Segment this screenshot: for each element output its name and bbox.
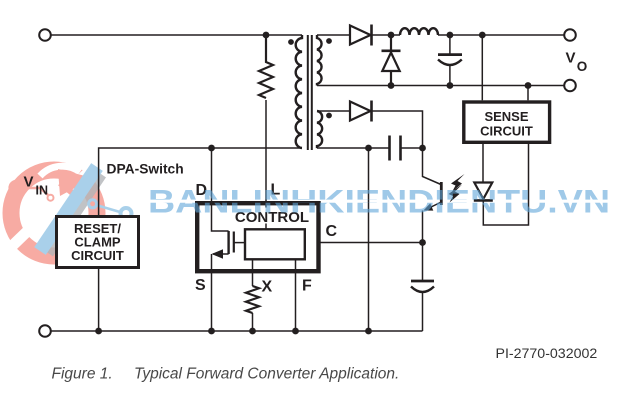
node sense tap bottom [525, 82, 532, 89]
svg-text:O: O [577, 59, 588, 74]
wire bias to collector [372, 111, 423, 148]
svg-text:CIRCUIT: CIRCUIT [480, 123, 533, 138]
wire bias top [317, 110, 350, 112]
svg-text:Typical Forward Converter Appl: Typical Forward Converter Application. [134, 366, 399, 383]
node X ground [249, 328, 256, 335]
svg-text:IN: IN [36, 184, 49, 198]
node S ground [208, 328, 215, 335]
wire D pin [211, 148, 213, 203]
transformer core [308, 35, 312, 150]
node primary-drain junction [208, 145, 215, 152]
capacitor C1 output [438, 35, 462, 86]
primary polarity dot [288, 39, 294, 45]
wire X pin [252, 259, 254, 286]
wire bottom input rail [51, 330, 423, 332]
optocoupler phototransistor U2a [423, 148, 442, 243]
wire C pin [321, 242, 423, 244]
control inner block [245, 229, 305, 259]
wire D1 to node [372, 34, 401, 36]
wire sense top tap [481, 35, 483, 100]
wire output rail [438, 34, 564, 36]
wire secondary top [317, 34, 350, 36]
output terminal + [564, 29, 576, 41]
node C pin [419, 239, 426, 246]
diode D2 freewheeling [382, 35, 401, 86]
decorative logo [10, 163, 132, 256]
wire sense bottom tap [527, 86, 529, 101]
node catch-diode top [388, 32, 395, 39]
wire L pin [265, 100, 267, 203]
svg-text:SENSE: SENSE [484, 109, 528, 124]
wire L inside [265, 205, 267, 229]
transformer T1 secondary winding [317, 35, 322, 86]
LED optocoupler diode [474, 183, 493, 201]
resistor external limit [246, 286, 259, 313]
transformer T1 bias winding [317, 111, 322, 148]
svg-text:V: V [24, 174, 34, 191]
svg-text:S: S [195, 277, 206, 294]
wire secondary return rail [317, 85, 564, 87]
inductor L1 [400, 28, 438, 35]
svg-text:V: V [566, 49, 576, 66]
node bias return [365, 145, 372, 152]
wire bias return to ground [368, 148, 370, 331]
svg-text:Figure 1.: Figure 1. [52, 366, 113, 383]
secondary polarity dot [326, 38, 332, 44]
MOSFET Q1 [212, 203, 246, 331]
node output cap top [447, 32, 454, 39]
svg-text:F: F [302, 278, 312, 295]
svg-text:PI-2770-032002: PI-2770-032002 [496, 346, 598, 362]
op-amp U1 control box [197, 203, 318, 271]
wire sense to LED [482, 144, 484, 182]
transformer T1 primary winding [296, 35, 302, 148]
diode D3 bias [350, 101, 372, 122]
input terminal + [39, 29, 51, 41]
wire X to ground [252, 313, 254, 331]
svg-text:C: C [326, 223, 338, 240]
svg-text:CIRCUIT: CIRCUIT [71, 248, 124, 263]
node catch-diode bottom [388, 82, 395, 89]
node reset bottom [95, 328, 102, 335]
node F ground [292, 328, 299, 335]
node bias supply [419, 145, 426, 152]
wire bias cap to collector node [401, 147, 423, 149]
node bias ground [365, 328, 372, 335]
node line-sense tap [263, 32, 270, 39]
light arrows [449, 174, 465, 203]
sense circuit box [464, 102, 550, 142]
wire reset bottom [98, 269, 100, 331]
svg-text:X: X [262, 279, 273, 296]
capacitor C2 bias [390, 136, 401, 161]
wire bias bottom [317, 147, 389, 149]
control label [231, 208, 313, 224]
diode D1 rectifier [350, 25, 372, 46]
wire primary return [99, 148, 302, 215]
resistor line-sense [259, 35, 273, 98]
wire LED return [483, 144, 528, 225]
bias polarity dot [326, 113, 332, 119]
svg-text:DPA-Switch: DPA-Switch [107, 162, 184, 177]
input terminal - [39, 325, 51, 337]
node output cap bottom [447, 82, 454, 89]
wire F pin [295, 259, 297, 331]
reset clamp box [57, 217, 139, 268]
output terminal - [564, 80, 576, 92]
node sense tap top [479, 32, 486, 39]
wire top input rail [51, 34, 302, 36]
capacitor C4 control [411, 243, 434, 332]
